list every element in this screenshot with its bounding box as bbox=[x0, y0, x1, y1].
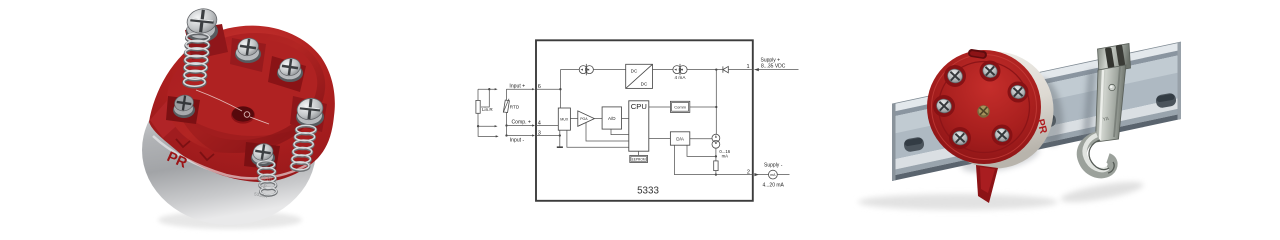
rail bottom edge bbox=[892, 114, 1181, 181]
wire MUX to PGA bbox=[570, 118, 577, 120]
junction node top bus bbox=[715, 68, 717, 70]
junction node output bbox=[715, 173, 717, 175]
rail face sheen bbox=[892, 55, 1181, 134]
wire linr wiper tap bbox=[481, 89, 489, 107]
diode D1 bbox=[723, 66, 728, 72]
Comm block bbox=[670, 101, 689, 112]
top face bbox=[155, 19, 336, 168]
junction node input minus bbox=[559, 134, 561, 136]
rail slot middle bbox=[1035, 113, 1057, 129]
silver highlight below red bbox=[153, 136, 310, 178]
clip fork slots bbox=[1105, 44, 1126, 68]
wire pin6 internal bbox=[536, 88, 560, 90]
silver band markings bbox=[254, 173, 273, 200]
face front shadow crescent bbox=[178, 112, 296, 153]
resistor Lin.R bbox=[476, 89, 494, 126]
spring on terminal 5 bbox=[257, 161, 276, 196]
red side wedge bbox=[150, 88, 197, 142]
CPU block bbox=[629, 101, 649, 151]
wire sense line to D/A bbox=[687, 145, 716, 156]
junction node comp left bbox=[477, 125, 479, 127]
wire source to resistor bbox=[715, 148, 717, 161]
op-amp PGA bbox=[578, 111, 595, 126]
rail slot left bbox=[903, 136, 925, 152]
D/A block bbox=[670, 132, 689, 145]
clip rivet bbox=[1109, 84, 1115, 90]
wire Comm to bus bbox=[690, 106, 717, 108]
DIN rail bbox=[892, 42, 1181, 181]
wire rail DC/DC to T2 bbox=[653, 69, 673, 71]
wire input plus left segment bbox=[478, 88, 495, 90]
wire input minus left segment bbox=[478, 126, 496, 136]
transmitter body (ivory housing) bbox=[937, 52, 1054, 169]
wire rail T2 to diode bbox=[687, 69, 723, 71]
junction node linr wiper bbox=[488, 88, 490, 90]
wire input bus vertical bbox=[559, 70, 561, 108]
wire supply plus external bbox=[755, 69, 799, 71]
face screws bbox=[935, 62, 1027, 147]
EEPROM block bbox=[630, 155, 648, 162]
wire MUX control bbox=[567, 130, 629, 147]
wire diode to pin 1 bbox=[728, 69, 753, 71]
RTD sensor bbox=[503, 89, 520, 125]
rail top flange bbox=[892, 42, 1181, 112]
wire resistor to output line bbox=[715, 171, 717, 175]
rail mid face bbox=[892, 55, 1181, 160]
molded notches on red side bbox=[176, 139, 190, 147]
clip crease highlight bbox=[1100, 70, 1103, 140]
mounting tab below bbox=[976, 165, 998, 203]
silver housing base bbox=[142, 75, 316, 225]
rail slot right bbox=[1155, 92, 1177, 108]
rail right end face bbox=[1178, 42, 1182, 120]
wire top rail left bbox=[560, 69, 579, 71]
terminal clamp bodies (metal brackets) bbox=[173, 20, 324, 167]
rail left end face bbox=[892, 103, 896, 181]
clip lower hook bbox=[1082, 136, 1113, 173]
transformer T1 bbox=[579, 64, 593, 75]
rail groove bbox=[892, 50, 1181, 117]
resistor R shunt bbox=[714, 161, 718, 171]
meter mA bbox=[769, 170, 778, 179]
wire rtd to input minus bbox=[506, 126, 508, 136]
wire CPU to EEPROM bbox=[638, 151, 640, 155]
DC/DC converter bbox=[626, 64, 653, 88]
transmitter red face bbox=[927, 50, 1041, 164]
spring on terminal 1 bbox=[184, 33, 210, 87]
wire PGA control bbox=[586, 122, 629, 141]
clip fork tab bbox=[1098, 44, 1131, 74]
mounting clip bbox=[1082, 44, 1131, 174]
junction node rtd comp bbox=[505, 124, 507, 126]
floor shadow bbox=[858, 194, 1058, 210]
clip main strip bbox=[1096, 65, 1127, 142]
current source 0...16 mA bbox=[712, 134, 720, 148]
enclosure box 5333 bbox=[536, 40, 753, 201]
shadow of transmitter on rail bbox=[1028, 76, 1067, 148]
wire supply minus external bbox=[754, 174, 768, 176]
junction node comm bus bbox=[715, 106, 717, 108]
wire input minus right segment bbox=[507, 135, 533, 137]
spring on terminal 4 bbox=[291, 125, 316, 170]
wire CPU to Comm bbox=[649, 106, 671, 108]
wire input plus right segment bbox=[506, 88, 532, 90]
wire A/D control bbox=[611, 129, 629, 135]
wire MUX ground stub bbox=[559, 130, 561, 147]
screw wells bbox=[933, 61, 1029, 150]
red body bbox=[149, 26, 335, 182]
top keyhole slot bbox=[967, 48, 987, 59]
wire output line bbox=[675, 145, 753, 174]
wire pin3 internal bbox=[536, 135, 560, 137]
rail lower flange bbox=[892, 98, 1181, 170]
wire right bus vertical bbox=[715, 70, 717, 135]
scribe line marking bbox=[196, 90, 269, 124]
drop shadow bbox=[158, 211, 302, 229]
wire D/A to current source bbox=[690, 138, 712, 140]
junction node rtd minus bbox=[505, 134, 507, 136]
wire pin4 internal bbox=[536, 125, 558, 127]
junction node sense bbox=[715, 155, 717, 157]
rail lower groove bbox=[892, 108, 1181, 176]
wire PGA to A/D bbox=[594, 118, 602, 120]
transformer T2 4 mA bbox=[673, 64, 687, 75]
rail top hairline bbox=[892, 42, 1181, 104]
wire rail T1 to DC/DC bbox=[593, 69, 625, 71]
wire A/D to CPU bbox=[622, 118, 629, 120]
terminal towers (dark red pedestals) bbox=[166, 24, 327, 170]
wire comp plus right segment bbox=[507, 125, 533, 127]
A/D block bbox=[602, 107, 621, 129]
junction node input plus bbox=[559, 88, 561, 90]
wire comp plus left segment bbox=[478, 125, 495, 127]
MUX block bbox=[558, 108, 570, 130]
wire CPU to D/A bbox=[649, 138, 671, 140]
center hole bbox=[231, 106, 255, 123]
screw heads bbox=[173, 6, 325, 163]
clip shadow on rail bbox=[1082, 70, 1096, 144]
ground bbox=[557, 146, 563, 148]
center screw bbox=[977, 105, 989, 117]
